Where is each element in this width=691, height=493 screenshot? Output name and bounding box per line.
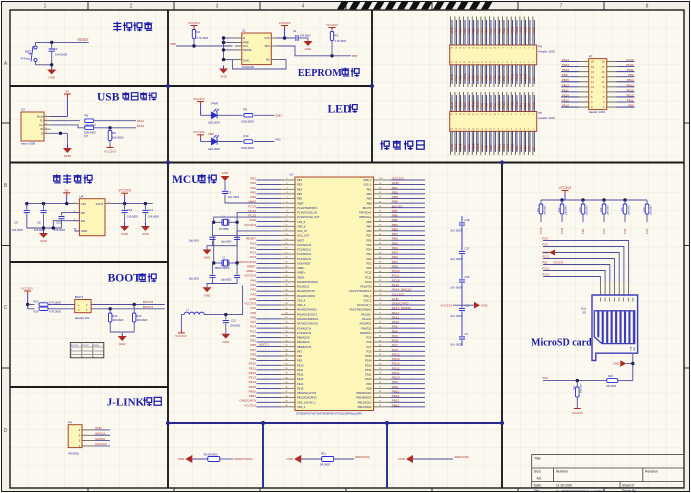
- svg-text:PD12: PD12: [392, 366, 400, 370]
- svg-text:GND: GND: [532, 27, 536, 33]
- svg-text:GND: GND: [142, 232, 150, 236]
- svg-text:VCC3V3: VCC3V3: [193, 97, 205, 101]
- svg-text:R10: R10: [244, 134, 249, 138]
- svg-text:C1: C1: [293, 29, 297, 33]
- svg-text:PE15: PE15: [627, 88, 634, 92]
- wire G pin to gnd: [51, 132, 68, 134]
- capacitor C2: [51, 42, 53, 48]
- resistor R9: [244, 114, 253, 118]
- svg-text:PE11: PE11: [627, 98, 634, 102]
- svg-text:PC9: PC9: [366, 336, 372, 340]
- svg-text:PA12: PA12: [137, 124, 144, 128]
- wire cell2 right: [334, 458, 354, 460]
- svg-text:104, 0603: 104, 0603: [228, 195, 240, 199]
- junction R8: [108, 126, 111, 129]
- svg-text:GND: GND: [287, 457, 295, 461]
- svg-text:R23: R23: [137, 314, 142, 318]
- svg-text:PB7: PB7: [352, 54, 358, 58]
- svg-text:C9: C9: [14, 221, 18, 225]
- svg-text:PC6: PC6: [392, 348, 398, 352]
- svg-text:PD15: PD15: [627, 58, 634, 62]
- svg-text:PC9: PC9: [645, 228, 649, 234]
- svg-text:PE15: PE15: [297, 386, 304, 390]
- svg-text:VDD_1: VDD_1: [297, 405, 306, 409]
- section title 电源电路: [53, 174, 61, 182]
- svg-text:PE2: PE2: [250, 177, 256, 181]
- power VCC3V3 L1: [178, 329, 185, 333]
- svg-text:PE14: PE14: [562, 93, 569, 97]
- svg-text:5100,0603: 5100,0603: [241, 146, 254, 150]
- resistor R6: [85, 119, 94, 123]
- svg-text:x: x: [71, 349, 72, 351]
- svg-text:PE9: PE9: [297, 359, 302, 363]
- wire VCC pin to C1: [277, 37, 295, 39]
- svg-text:GND: GND: [398, 457, 406, 461]
- svg-text:PB0: PB0: [250, 334, 256, 338]
- svg-text:x: x: [82, 349, 83, 351]
- svg-text:GND(VCC3V3): GND(VCC3V3): [234, 457, 252, 461]
- svg-text:BOOT: BOOT: [108, 273, 142, 285]
- svg-text:PC11: PC11: [560, 227, 564, 234]
- svg-text:PE15: PE15: [249, 385, 257, 389]
- MCU pins right: [349, 177, 425, 409]
- svg-text:7: 7: [560, 4, 563, 10]
- svg-text:PC13/TAMP/RTC: PC13/TAMP/RTC: [297, 206, 317, 210]
- svg-text:PE14: PE14: [297, 382, 304, 386]
- svg-text:BOOT0: BOOT0: [143, 300, 154, 304]
- svg-text:VSS_1/VCAP_1: VSS_1/VCAP_1: [297, 400, 316, 404]
- svg-text:P6: P6: [538, 111, 542, 115]
- svg-text:GND(CAP2): GND(CAP2): [392, 302, 409, 306]
- svg-text:PC13: PC13: [248, 204, 256, 208]
- svg-text:PC6: PC6: [366, 349, 372, 353]
- capacitor C5 10p y1 right: [236, 222, 238, 236]
- svg-text:BOOT1: BOOT1: [260, 342, 270, 346]
- svg-text:PB11: PB11: [562, 88, 569, 92]
- resistor R15 pullup: [624, 200, 626, 204]
- svg-text:PB13: PB13: [392, 399, 400, 403]
- capacitor C9: [26, 204, 28, 210]
- resistor R22 pull boot1: [109, 309, 111, 313]
- svg-text:SWDIO: SWDIO: [95, 437, 106, 441]
- svg-text:4.7K,0603: 4.7K,0603: [335, 40, 347, 43]
- svg-text:PB11: PB11: [249, 394, 256, 398]
- svg-text:PB6: PB6: [392, 214, 398, 218]
- svg-text:PD5: PD5: [392, 241, 398, 245]
- wire R7 to PA12: [94, 127, 136, 129]
- svg-text:10K,0603: 10K,0603: [581, 383, 583, 393]
- svg-text:PB6: PB6: [170, 42, 176, 46]
- power VCC3V3 sd bottom: [574, 407, 581, 409]
- svg-text:PB1: PB1: [250, 339, 256, 343]
- resistor R14 pullup: [603, 200, 605, 204]
- section title 对外接口: [380, 141, 389, 151]
- svg-text:PB12/NSS2: PB12/NSS2: [358, 405, 372, 409]
- svg-text:PA15/TDI: PA15/TDI: [360, 285, 371, 289]
- svg-text:PD2: PD2: [542, 261, 548, 265]
- svg-text:U2: U2: [289, 172, 293, 176]
- svg-text:P7: P7: [589, 54, 593, 58]
- crystal Y1 32.768K: [237, 212, 281, 222]
- svg-text:GND: GND: [40, 239, 48, 243]
- regulator U4: [79, 199, 105, 236]
- svg-text:PC5/ADC15: PC5/ADC15: [297, 331, 312, 335]
- svg-text:LED: LED: [328, 103, 352, 115]
- svg-text:SDA: SDA: [264, 44, 270, 48]
- svg-text:R2: R2: [197, 30, 201, 34]
- svg-text:GND: GND: [178, 457, 186, 461]
- svg-text:104,0603: 104,0603: [148, 215, 159, 219]
- ground arrow cell3: [406, 455, 413, 463]
- svg-text:NC/VCAP_2: NC/VCAP_2: [357, 303, 372, 307]
- header net labels rotated: [450, 26, 536, 150]
- svg-text:x: x: [93, 356, 94, 358]
- svg-text:105,0603: 105,0603: [54, 228, 65, 232]
- svg-text:PB8: PB8: [367, 201, 372, 205]
- svg-text:PC7: PC7: [392, 343, 398, 347]
- svg-text:PD14: PD14: [365, 359, 372, 363]
- svg-text:PA7: PA7: [251, 320, 257, 324]
- svg-text:25MHz/8MHz: 25MHz/8MHz: [215, 267, 231, 270]
- svg-text:PB14: PB14: [392, 394, 400, 398]
- svg-text:PD12: PD12: [365, 368, 372, 372]
- ground Y2 caps: [207, 284, 237, 288]
- svg-text:F:\..\STM32F407VET6-Core.SchDo: F:\..\STM32F407VET6-Core.SchDoc: [556, 489, 605, 493]
- svg-text:PA9/TX1: PA9/TX1: [361, 326, 372, 330]
- svg-text:PC12: PC12: [365, 271, 372, 275]
- svg-text:P4: P4: [68, 420, 72, 424]
- power VCC3V3 below R8: [107, 146, 114, 148]
- svg-text:14: 14: [591, 75, 594, 79]
- svg-text:PC8: PC8: [542, 237, 548, 241]
- svg-text:R15: R15: [621, 207, 624, 212]
- svg-text:PB14/MISO2: PB14/MISO2: [356, 396, 372, 400]
- svg-text:VCC3V3: VCC3V3: [244, 403, 256, 407]
- svg-text:GND: GND: [48, 76, 56, 80]
- svg-text:PB9: PB9: [367, 197, 372, 201]
- wire NC loop: [232, 60, 286, 69]
- svg-text:PB15: PB15: [392, 389, 400, 393]
- svg-text:BOOT0: BOOT0: [363, 206, 372, 210]
- resistor R18: [607, 379, 618, 383]
- svg-text:BOOT0: BOOT0: [392, 204, 403, 208]
- svg-text:PC2/ADC12: PC2/ADC12: [297, 252, 312, 256]
- svg-text:PE4: PE4: [297, 187, 302, 191]
- svg-text:GND: GND: [249, 297, 257, 301]
- svg-text:PC1: PC1: [250, 246, 256, 250]
- svg-text:PD8: PD8: [392, 385, 398, 389]
- svg-text:File:: File:: [534, 489, 540, 493]
- svg-text:19: 19: [602, 60, 605, 64]
- svg-text:GND: GND: [64, 154, 72, 158]
- svg-text:C12: C12: [148, 208, 154, 212]
- svg-text:PB12: PB12: [392, 403, 400, 407]
- wire sd PC9: [543, 247, 624, 283]
- svg-text:VCC3V3: VCC3V3: [95, 442, 107, 446]
- svg-text:Header 10X2: Header 10X2: [538, 50, 555, 54]
- svg-text:16: 16: [591, 70, 594, 74]
- svg-text:GND: GND: [121, 232, 129, 236]
- svg-text:PC12: PC12: [392, 269, 400, 273]
- svg-text:NRST: NRST: [297, 238, 304, 242]
- wire cell2 left: [300, 458, 321, 460]
- svg-text:105,0603: 105,0603: [127, 215, 138, 219]
- svg-text:Header 2X2: Header 2X2: [75, 316, 90, 320]
- header P4 SWD: [68, 425, 82, 448]
- svg-text:Y2: Y2: [222, 255, 226, 259]
- svg-text:PA13/TMS/SWDIO: PA13/TMS/SWDIO: [350, 308, 372, 312]
- svg-text:PE3: PE3: [297, 183, 302, 187]
- ground boot: [121, 333, 123, 336]
- svg-text:PA5: PA5: [251, 311, 257, 315]
- ground C16: [124, 223, 126, 226]
- svg-text:PA2/ADC2/TX2: PA2/ADC2/TX2: [297, 289, 315, 293]
- svg-text:NC: NC: [266, 58, 270, 62]
- svg-text:STM32F407VET6/STM32F407VGT6(10: STM32F407VET6/STM32F407VGT6(100PIN&LQFP): [296, 412, 362, 416]
- resistor R12 pullup: [561, 200, 563, 204]
- svg-text:12: 12: [591, 80, 594, 84]
- svg-text:R12: R12: [558, 207, 561, 212]
- wire vcc to led1: [201, 114, 212, 116]
- switch SW1: [29, 46, 38, 62]
- svg-text:BOOT: BOOT: [75, 295, 84, 299]
- capacitor C4 bank: [459, 337, 465, 339]
- svg-text:VDD_3: VDD_3: [363, 178, 372, 182]
- header pin numbers P5: [450, 48, 534, 131]
- svg-text:PE0: PE0: [367, 192, 372, 196]
- wire EN: [53, 221, 79, 228]
- wire sd PD2: [543, 265, 610, 283]
- svg-text:GND: GND: [613, 362, 619, 366]
- wire boot gnd bus: [110, 331, 134, 333]
- svg-text:PD0: PD0: [366, 266, 372, 270]
- svg-text:VCC3V3: VCC3V3: [104, 150, 116, 154]
- ground arrow cell1: [185, 455, 192, 463]
- decoupling caps bank right of MCU: [461, 216, 463, 346]
- svg-text:VCC3V3: VCC3V3: [21, 286, 33, 290]
- svg-text:PC0/ADC10: PC0/ADC10: [297, 243, 312, 247]
- junction bottom: [50, 63, 53, 66]
- svg-text:GND: GND: [222, 171, 230, 175]
- svg-text:32.768K: 32.768K: [219, 227, 229, 231]
- svg-text:PD7: PD7: [392, 232, 398, 236]
- svg-text:Date:: Date:: [534, 483, 542, 487]
- svg-text:PD5: PD5: [366, 243, 372, 247]
- svg-text:PB13/SCK2: PB13/SCK2: [358, 400, 372, 404]
- svg-text:PB2/BOOT1: PB2/BOOT1: [297, 345, 312, 349]
- svg-text:GND(CAP2): GND(CAP2): [454, 455, 469, 459]
- wire VIN rail: [27, 203, 73, 205]
- svg-text:PA8: PA8: [392, 329, 398, 333]
- led D2: [212, 135, 219, 145]
- svg-text:10: 10: [591, 85, 594, 89]
- svg-text:PE12: PE12: [297, 373, 304, 377]
- power VCC3V3 eeprom R2: [191, 26, 198, 30]
- header pin columns: [451, 17, 535, 156]
- junction node reset: [50, 41, 53, 44]
- svg-text:PD11: PD11: [627, 68, 634, 72]
- svg-text:U3: U3: [21, 108, 25, 112]
- svg-text:PE13: PE13: [627, 93, 634, 97]
- MCU U2 body: [295, 177, 374, 411]
- svg-text:R11: R11: [537, 207, 540, 212]
- ground C12: [144, 223, 146, 226]
- svg-text:LED,0603: LED,0603: [208, 121, 220, 125]
- svg-text:GND: GND: [392, 297, 400, 301]
- svg-text:VBAT: VBAT: [297, 201, 304, 205]
- svg-text:OSC_IN: OSC_IN: [297, 229, 307, 233]
- svg-text:PD11: PD11: [392, 371, 400, 375]
- svg-text:GND: GND: [481, 303, 489, 307]
- resistor R17: [576, 381, 578, 387]
- svg-text:R13: R13: [579, 207, 582, 212]
- connector CN1 SD socket: [592, 295, 638, 361]
- svg-text:PA12/D+: PA12/D+: [361, 312, 372, 316]
- wire L1 to VDD: [204, 285, 242, 314]
- wire eeprom left bus: [223, 38, 225, 60]
- svg-text:GND: GND: [204, 256, 212, 260]
- svg-text:GND: GND: [119, 342, 127, 346]
- svg-text:104, 0603: 104, 0603: [450, 228, 462, 232]
- svg-text:OSC_OUT: OSC_OUT: [297, 234, 310, 238]
- svg-text:PE9: PE9: [250, 357, 256, 361]
- svg-text:10K,0603: 10K,0603: [607, 205, 609, 215]
- svg-text:PD10: PD10: [392, 376, 400, 380]
- svg-text:BOOT1: BOOT1: [82, 345, 90, 347]
- svg-text:D: D: [4, 428, 8, 434]
- svg-text:104,0603: 104,0603: [230, 325, 241, 328]
- svg-text:PE13: PE13: [297, 377, 304, 381]
- svg-text:PB15: PB15: [562, 78, 569, 82]
- svg-text:13: 13: [602, 75, 605, 79]
- svg-text:GND: GND: [249, 218, 257, 222]
- svg-text:GND: GND: [220, 75, 228, 79]
- svg-text:PD14: PD14: [392, 357, 400, 361]
- svg-text:x: x: [71, 356, 72, 358]
- svg-text:4.7K,0603: 4.7K,0603: [49, 309, 61, 313]
- resistor R2: [192, 30, 195, 39]
- svg-text:Header 10X2: Header 10X2: [589, 110, 606, 114]
- svg-text:PA14_SWCLK: PA14_SWCLK: [392, 288, 411, 292]
- svg-text:10K,0603: 10K,0603: [606, 385, 617, 388]
- ground arrow cell2: [294, 455, 301, 463]
- svg-text:104, 0603: 104, 0603: [450, 257, 462, 261]
- svg-text:PA6: PA6: [251, 315, 257, 319]
- svg-text:PD4: PD4: [366, 248, 372, 252]
- svg-text:11-26-2020: 11-26-2020: [556, 483, 572, 487]
- svg-text:GND: GND: [81, 229, 87, 233]
- svg-text:PRE: PRE: [243, 41, 249, 45]
- svg-text:Number: Number: [556, 470, 569, 474]
- svg-text:VSS_5: VSS_5: [297, 220, 306, 224]
- svg-text:10K,0603: 10K,0603: [113, 319, 124, 322]
- svg-text:VCC3V3: VCC3V3: [440, 303, 452, 307]
- svg-text:R22: R22: [113, 314, 118, 318]
- power VCC3V3 eeprom vcc: [281, 26, 288, 30]
- svg-text:4.7K,0603: 4.7K,0603: [197, 37, 209, 40]
- svg-text:PD2: PD2: [581, 228, 585, 234]
- svg-text:PE4: PE4: [250, 186, 256, 190]
- svg-text:R5 0R,0603: R5 0R,0603: [204, 452, 218, 456]
- svg-text:L1: L1: [186, 307, 190, 311]
- svg-text:Size: Size: [534, 470, 541, 474]
- svg-text:PA3: PA3: [251, 292, 257, 296]
- svg-text:PC10: PC10: [539, 227, 543, 234]
- capacitor C11: [225, 315, 227, 320]
- svg-text:10K,0603: 10K,0603: [137, 319, 148, 322]
- wire U4 gnd pin: [75, 228, 79, 231]
- svg-text:VSS_2: VSS_2: [363, 298, 372, 302]
- svg-text:PB10: PB10: [249, 389, 257, 393]
- svg-text:PE10: PE10: [249, 362, 257, 366]
- svg-text:2: 2: [130, 4, 133, 10]
- svg-text:PB0/ADC8: PB0/ADC8: [297, 336, 310, 340]
- svg-text:AT24C08: AT24C08: [242, 65, 254, 69]
- resistor R23 pull boot0: [133, 305, 135, 313]
- svg-text:PD9: PD9: [628, 73, 634, 77]
- power 5V usb: [64, 94, 71, 98]
- svg-text:MODE: MODE: [93, 345, 100, 347]
- wire sd gnd pin: [632, 353, 634, 380]
- svg-text:PD14: PD14: [562, 58, 569, 62]
- svg-text:PA11: PA11: [137, 119, 144, 123]
- capacitor C17 bank: [459, 251, 465, 253]
- svg-text:x: x: [82, 356, 83, 358]
- svg-text:PA5/ADC5/SCK1: PA5/ADC5/SCK1: [297, 312, 317, 316]
- svg-text:MODE: MODE: [243, 48, 251, 52]
- svg-text:PWR: PWR: [212, 101, 219, 105]
- svg-text:PE1: PE1: [392, 186, 398, 190]
- svg-text:PE14: PE14: [249, 380, 257, 384]
- svg-text:R17: R17: [573, 385, 576, 390]
- svg-text:PA13_SWDIO: PA13_SWDIO: [392, 306, 412, 310]
- wire vbus: [51, 116, 68, 118]
- svg-text:VREF-: VREF-: [297, 266, 305, 270]
- svg-text:104,0603: 104,0603: [300, 35, 311, 38]
- svg-text:20: 20: [591, 60, 594, 64]
- svg-text:PC15/OSC32_OUT: PC15/OSC32_OUT: [297, 215, 320, 219]
- svg-text:PB5: PB5: [392, 218, 398, 222]
- wire SDA to PB7: [277, 46, 351, 56]
- svg-text:1: 1: [44, 4, 47, 10]
- svg-text:VIN: VIN: [81, 202, 86, 206]
- svg-text:PC10: PC10: [392, 278, 400, 282]
- svg-text:Title: Title: [534, 457, 541, 461]
- svg-text:104,0603: 104,0603: [12, 228, 23, 232]
- power VCC3V3 led1: [197, 102, 204, 106]
- svg-text:R8: R8: [112, 131, 116, 135]
- svg-text:PB8: PB8: [392, 200, 398, 204]
- svg-text:PD1: PD1: [366, 261, 372, 265]
- svg-text:10p,0603: 10p,0603: [221, 241, 232, 244]
- svg-text:5V: 5V: [532, 77, 536, 81]
- svg-text:R21: R21: [321, 452, 326, 456]
- svg-text:PC3: PC3: [602, 228, 606, 234]
- header BOOT 2x2: [75, 300, 91, 313]
- wire R10 to PB0: [254, 141, 274, 143]
- svg-text:VCC3V3: VCC3V3: [175, 334, 187, 338]
- svg-text:PA4: PA4: [251, 306, 257, 310]
- svg-text:PD13: PD13: [392, 362, 400, 366]
- svg-text:R7: R7: [85, 134, 89, 138]
- svg-text:10K,0603: 10K,0603: [565, 205, 567, 215]
- svg-text:PE6: PE6: [297, 197, 302, 201]
- svg-text:VSSA/VDD: VSSA/VDD: [297, 261, 310, 265]
- svg-text:PE12: PE12: [562, 98, 569, 102]
- svg-text:PB2: PB2: [250, 343, 256, 347]
- capacitor C18 bank: [459, 223, 465, 225]
- svg-text:GND: GND: [275, 114, 281, 118]
